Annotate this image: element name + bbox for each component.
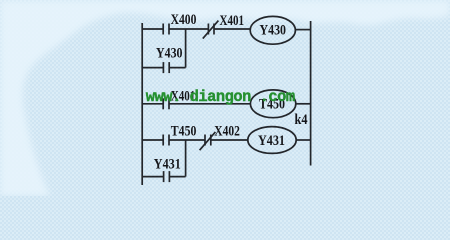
contact X400 bar1 <box>162 24 164 35</box>
wire rung2: contact to coil T450 <box>169 103 251 105</box>
svg-text:www. diangon .com: www. diangon .com <box>146 88 295 106</box>
wire rung1: X401 to coil Y430 <box>214 28 250 30</box>
svg-text:Y431: Y431 <box>258 133 285 149</box>
wire rung3: coil Y431 to right rail <box>296 139 310 141</box>
contact X401 (rung2) bar2 <box>168 98 170 109</box>
NC contact X402 bar1 <box>204 135 206 146</box>
wire branch3: rail to contact Y431 <box>142 176 163 178</box>
wire rung2: rail to contact X401 <box>142 103 163 105</box>
wire rung3: T450 to X402 <box>169 139 205 141</box>
contact X401 (rung2) bar1 <box>162 98 164 109</box>
contact Y431 bar2 <box>168 171 170 182</box>
contact T450 bar1 <box>162 135 164 146</box>
svg-text:Y430: Y430 <box>156 46 183 62</box>
NC contact X401 slash <box>203 21 219 39</box>
contact Y430 bar2 <box>168 62 170 73</box>
wire rung2: coil T450 to right rail <box>296 103 311 105</box>
wire rung3: X402 to coil Y431 <box>211 139 248 141</box>
wire branch3: contact Y431 to junction <box>169 176 185 178</box>
svg-text:Y430: Y430 <box>260 23 287 39</box>
contact X400 bar2 <box>168 24 170 35</box>
wire rung1: rail to contact X400 <box>142 28 163 30</box>
coil Y430 <box>250 16 295 44</box>
svg-text:X400: X400 <box>171 12 197 28</box>
branch junction wire (node B) rung3 to Y431 branch <box>185 140 187 177</box>
wire rung3: rail to contact T450 <box>142 139 163 141</box>
wire branch1: contact Y430 to junction <box>169 67 185 69</box>
right power rail <box>310 21 312 166</box>
coil Y431 <box>248 127 296 154</box>
NC contact X401 bar2 <box>213 24 215 35</box>
svg-text:Y431: Y431 <box>154 156 181 172</box>
svg-text:T450: T450 <box>171 123 197 139</box>
svg-text:k4: k4 <box>295 112 308 128</box>
contact Y431 bar1 <box>163 171 165 182</box>
NC contact X401 bar1 <box>207 24 209 35</box>
svg-text:X401: X401 <box>220 13 245 29</box>
NC contact X402 bar2 <box>210 135 212 146</box>
wire rung1: coil Y430 to right rail <box>295 29 310 31</box>
wire branch1: rail to contact Y430 <box>142 67 163 69</box>
contact T450 bar2 <box>168 135 170 146</box>
NC contact X402 slash <box>200 132 216 150</box>
left power rail <box>141 23 143 185</box>
wire rung1: X400 to X401 <box>169 28 208 30</box>
branch junction wire (node A) rung1 to Y430 branch <box>185 29 187 68</box>
svg-text:X402: X402 <box>214 123 240 139</box>
contact Y430 bar1 <box>162 62 164 73</box>
coil T450 <box>250 90 295 118</box>
